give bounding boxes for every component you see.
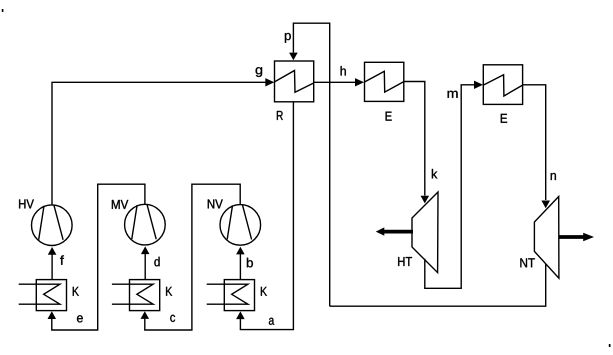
compressor NV: [220, 205, 261, 246]
label k: [432, 169, 438, 178]
heater E1: [365, 62, 404, 101]
label n: [551, 173, 556, 180]
arrow f (cooler K1 to HV): [48, 247, 57, 280]
label p: [285, 33, 291, 43]
wire n (E2 to turbine NT): [523, 85, 550, 208]
label m: [448, 91, 458, 98]
label g: [256, 67, 263, 77]
wire h (R outlet to heater E1): [314, 78, 364, 86]
label c: [170, 315, 175, 322]
label d: [154, 257, 159, 267]
wire c (NV outlet to cooler K2): [141, 184, 241, 330]
label K3: [261, 287, 267, 296]
heater E2: [483, 65, 522, 105]
output arrow NT (shaft power out): [559, 233, 594, 241]
wire k (E1 to turbine HT): [404, 82, 429, 204]
label K1: [73, 287, 79, 296]
label NV: [208, 199, 223, 208]
turbine HT: [412, 192, 438, 273]
compressor HV: [32, 205, 73, 246]
label E2: [501, 114, 507, 123]
label NT: [520, 258, 535, 267]
arrow d (cooler K2 to MV): [141, 246, 150, 279]
arrow b (cooler K3 to NV): [236, 247, 245, 280]
wire e (MV outlet to cooler K1): [48, 184, 145, 330]
label E1: [386, 112, 392, 121]
cooler K1: [19, 280, 67, 311]
dot top-left: [2, 9, 4, 12]
label a: [269, 318, 274, 325]
turbine NT: [534, 197, 559, 279]
label h: [341, 66, 346, 75]
recuperator R: [275, 61, 314, 102]
label R: [277, 111, 283, 120]
output arrow HT (shaft power out): [376, 227, 413, 235]
label HV: [19, 199, 34, 208]
wire NT exhaust (NT to return riser): [330, 264, 546, 307]
wire p (return riser to R hot inlet): [289, 23, 330, 306]
cooler K3: [207, 280, 255, 311]
compressor MV: [125, 204, 166, 245]
label K2: [166, 287, 172, 296]
label e: [77, 315, 83, 322]
cooler K2: [112, 280, 160, 311]
label b: [247, 258, 253, 268]
label f: [60, 255, 64, 264]
label HT: [398, 257, 412, 266]
wire g (HV outlet to recuperator R inlet): [52, 78, 274, 205]
dot bottom-right: [609, 344, 611, 347]
wire a (R hot outlet to cooler K3): [236, 102, 293, 330]
label MV: [112, 200, 128, 209]
wire m (HT exhaust to heater E2): [425, 81, 483, 289]
